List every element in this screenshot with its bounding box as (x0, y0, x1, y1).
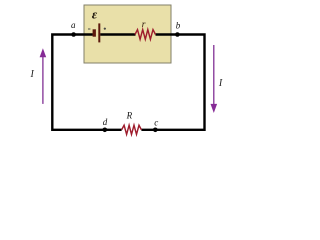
node c (153, 118, 158, 133)
battery plus sign (104, 28, 106, 30)
resistor r (135, 30, 156, 40)
battery box (EMF source enclosure) (84, 5, 171, 63)
svg-text:I: I (30, 69, 35, 80)
svg-text:r: r (142, 20, 146, 30)
resistor r value label (142, 20, 146, 30)
svg-text:R: R (126, 111, 133, 121)
battery positive plate (98, 23, 100, 42)
current arrow I (left, pointing up) (40, 48, 47, 104)
svg-text:c: c (154, 118, 158, 128)
resistor R value label (126, 111, 133, 121)
wire battery to resistor r (100, 33, 135, 35)
resistor R (122, 125, 142, 134)
svg-text:d: d (103, 117, 108, 127)
current arrow I (right, pointing down) (211, 45, 218, 113)
current label I (left) (30, 69, 35, 80)
battery EMF label ε (92, 7, 98, 22)
svg-text:a: a (71, 20, 76, 30)
wire left+bottom-left segment (a to d loop side) (52, 35, 121, 130)
node a (71, 20, 76, 37)
current label I (right) (218, 78, 223, 89)
node d (103, 117, 108, 132)
battery negative plate (93, 29, 96, 36)
node b (175, 20, 181, 37)
svg-text:b: b (176, 20, 181, 30)
wire bottom-right+right+top-right segment (R to b) (141, 35, 204, 130)
svg-text:I: I (218, 78, 223, 89)
svg-text:ε: ε (92, 7, 98, 22)
battery minus sign (88, 28, 90, 30)
